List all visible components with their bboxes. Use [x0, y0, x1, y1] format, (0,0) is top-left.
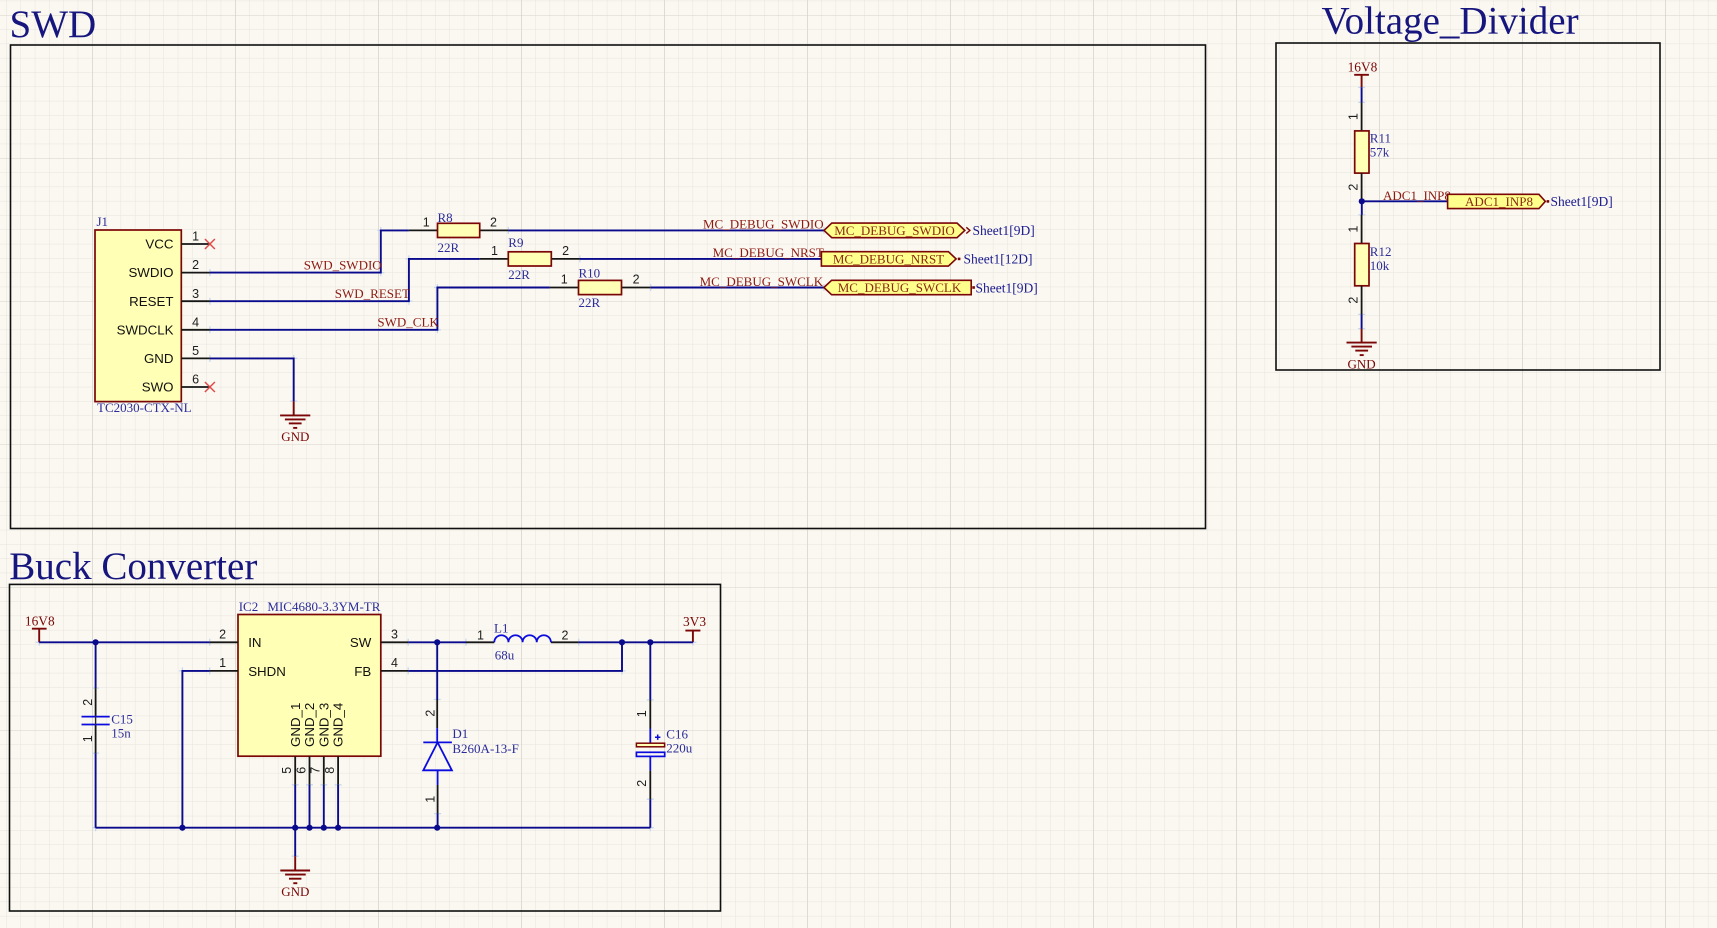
- svg-text:15n: 15n: [111, 726, 131, 741]
- svg-text:1: 1: [424, 796, 438, 803]
- svg-text:1: 1: [477, 629, 484, 643]
- svg-text:68u: 68u: [495, 647, 515, 662]
- svg-text:2: 2: [424, 710, 438, 717]
- svg-text:57k: 57k: [1370, 145, 1390, 160]
- svg-text:SW: SW: [350, 635, 372, 650]
- svg-text:1: 1: [1346, 226, 1360, 233]
- svg-text:Sheet1[9D]: Sheet1[9D]: [1551, 194, 1613, 209]
- svg-text:GND: GND: [281, 884, 309, 899]
- svg-text:2: 2: [1346, 297, 1360, 304]
- svg-text:R11: R11: [1370, 130, 1391, 145]
- svg-text:SWD_CLK: SWD_CLK: [377, 315, 439, 330]
- svg-text:220u: 220u: [666, 741, 693, 756]
- svg-text:L1: L1: [494, 621, 508, 636]
- svg-text:SWD_SWDIO: SWD_SWDIO: [304, 258, 382, 273]
- svg-text:1: 1: [491, 244, 498, 258]
- svg-text:1: 1: [219, 656, 226, 670]
- svg-text:6: 6: [192, 373, 199, 387]
- svg-text:1: 1: [423, 215, 430, 229]
- svg-text:SWDIO: SWDIO: [128, 265, 173, 280]
- svg-text:RESET: RESET: [129, 294, 173, 309]
- svg-text:2: 2: [490, 215, 497, 229]
- svg-text:Buck Converter: Buck Converter: [9, 545, 257, 588]
- svg-text:3: 3: [192, 287, 199, 301]
- svg-text:R9: R9: [508, 235, 523, 250]
- svg-text:SWD: SWD: [10, 3, 97, 46]
- svg-text:SWO: SWO: [142, 380, 174, 395]
- svg-text:Sheet1[9D]: Sheet1[9D]: [976, 280, 1038, 295]
- svg-text:J1: J1: [97, 214, 109, 229]
- svg-text:GND_2: GND_2: [302, 703, 317, 747]
- svg-text:TC2030-CTX-NL: TC2030-CTX-NL: [97, 400, 192, 415]
- svg-text:3: 3: [391, 627, 398, 641]
- svg-text:2: 2: [81, 699, 95, 706]
- svg-text:2: 2: [219, 627, 226, 641]
- svg-text:MIC4680-3.3YM-TR: MIC4680-3.3YM-TR: [267, 599, 380, 614]
- svg-text:16V8: 16V8: [1348, 60, 1378, 75]
- svg-text:7: 7: [309, 767, 323, 774]
- svg-text:VCC: VCC: [145, 237, 173, 252]
- svg-text:10k: 10k: [1370, 258, 1390, 273]
- svg-text:MC_DEBUG_NRST: MC_DEBUG_NRST: [833, 252, 944, 267]
- svg-text:1: 1: [635, 710, 649, 717]
- svg-text:IN: IN: [248, 635, 261, 650]
- svg-text:16V8: 16V8: [25, 614, 55, 629]
- svg-text:5: 5: [192, 344, 199, 358]
- svg-text:2: 2: [192, 258, 199, 272]
- svg-text:ADC1_INP8: ADC1_INP8: [1383, 188, 1451, 203]
- svg-text:B260A-13-F: B260A-13-F: [452, 741, 518, 756]
- svg-text:2: 2: [562, 244, 569, 258]
- svg-text:6: 6: [294, 767, 308, 774]
- svg-text:C15: C15: [111, 711, 133, 726]
- svg-text:MC_DEBUG_SWCLK: MC_DEBUG_SWCLK: [838, 280, 962, 295]
- svg-text:ADC1_INP8: ADC1_INP8: [1465, 194, 1533, 209]
- svg-text:Voltage_Divider: Voltage_Divider: [1322, 0, 1579, 43]
- svg-text:GND_3: GND_3: [316, 703, 331, 747]
- svg-text:GND: GND: [144, 351, 174, 366]
- svg-text:R12: R12: [1370, 244, 1392, 259]
- svg-text:SWDCLK: SWDCLK: [117, 322, 174, 337]
- svg-text:GND: GND: [1348, 356, 1376, 371]
- svg-text:SHDN: SHDN: [248, 664, 286, 679]
- svg-text:4: 4: [391, 656, 398, 670]
- svg-text:1: 1: [81, 735, 95, 742]
- svg-text:GND_1: GND_1: [288, 703, 303, 747]
- svg-text:2: 2: [633, 273, 640, 287]
- svg-text:GND: GND: [281, 429, 309, 444]
- svg-text:22R: 22R: [579, 295, 601, 310]
- svg-text:D1: D1: [452, 726, 468, 741]
- svg-text:FB: FB: [354, 664, 371, 679]
- svg-text:IC2: IC2: [239, 599, 259, 614]
- svg-text:Sheet1[12D]: Sheet1[12D]: [964, 252, 1033, 267]
- svg-text:SWD_RESET: SWD_RESET: [335, 286, 410, 301]
- svg-text:1: 1: [192, 230, 199, 244]
- svg-text:Sheet1[9D]: Sheet1[9D]: [973, 223, 1035, 238]
- svg-text:5: 5: [280, 767, 294, 774]
- svg-text:4: 4: [192, 315, 199, 329]
- svg-text:8: 8: [323, 767, 337, 774]
- svg-text:2: 2: [562, 629, 569, 643]
- svg-text:1: 1: [1346, 113, 1360, 120]
- svg-text:MC_DEBUG_SWDIO: MC_DEBUG_SWDIO: [834, 223, 955, 238]
- svg-text:MC_DEBUG_SWCLK: MC_DEBUG_SWCLK: [700, 274, 824, 289]
- svg-text:GND_4: GND_4: [331, 703, 346, 747]
- svg-text:R8: R8: [438, 210, 453, 225]
- svg-text:R10: R10: [579, 265, 601, 280]
- svg-text:C16: C16: [666, 726, 688, 741]
- svg-text:22R: 22R: [508, 267, 530, 282]
- svg-text:1: 1: [561, 273, 568, 287]
- svg-text:3V3: 3V3: [683, 614, 706, 629]
- svg-text:MC_DEBUG_NRST: MC_DEBUG_NRST: [713, 245, 824, 260]
- svg-text:2: 2: [1346, 184, 1360, 191]
- svg-text:MC_DEBUG_SWDIO: MC_DEBUG_SWDIO: [703, 217, 824, 232]
- svg-text:2: 2: [635, 780, 649, 787]
- svg-text:22R: 22R: [438, 240, 460, 255]
